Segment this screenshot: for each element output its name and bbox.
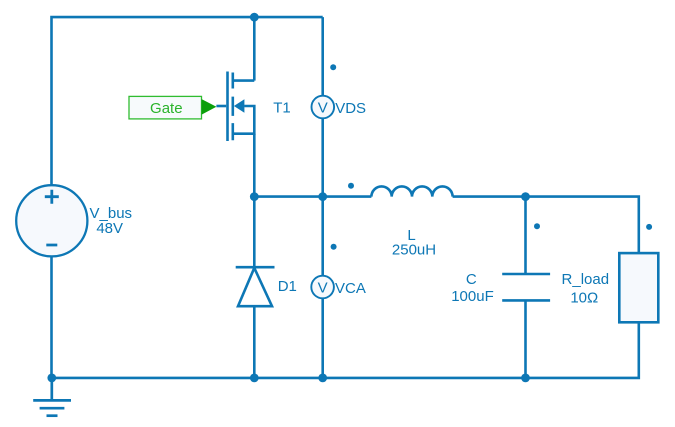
probe dot VCA (331, 244, 337, 250)
wire drain (253, 17, 256, 81)
junction mid probe (318, 192, 327, 201)
svg-text:V: V (318, 279, 328, 296)
diode D1 (236, 197, 275, 378)
wire mid rail (254, 197, 639, 254)
probe dot resistor (646, 224, 652, 230)
junction bottom capacitor (521, 374, 530, 383)
probe dot inductor (348, 183, 354, 189)
resistor R_load (619, 253, 658, 322)
junction bottom probe (318, 374, 327, 383)
probe VCA (311, 276, 334, 299)
transistor T1 body arrow (234, 99, 245, 113)
svg-text:100uF: 100uF (451, 288, 494, 305)
junction mid capacitor (521, 192, 530, 201)
ground (33, 378, 71, 416)
svg-text:V: V (318, 99, 328, 116)
wire left column below source (50, 256, 53, 378)
gate tag box (129, 96, 202, 119)
wire bottom rail (52, 322, 639, 378)
svg-text:T1: T1 (273, 100, 291, 117)
svg-text:C: C (466, 271, 477, 288)
junction bottom ground (47, 374, 56, 383)
svg-text:Gate: Gate (150, 100, 183, 117)
capacitor C (502, 197, 550, 378)
svg-text:D1: D1 (278, 278, 297, 295)
inductor L (371, 186, 452, 196)
probe dot VDS (330, 64, 336, 70)
svg-text:250uH: 250uH (392, 241, 436, 258)
junction mid diode (250, 192, 259, 201)
probe VDS (312, 96, 335, 119)
gate tag arrow (202, 99, 217, 115)
svg-text:VDS: VDS (335, 100, 366, 117)
wire probe column VDS/VCA (321, 17, 324, 378)
junction bottom diode (250, 374, 259, 383)
svg-text:VCA: VCA (335, 280, 366, 297)
svg-text:R_load: R_load (562, 271, 610, 288)
svg-text:48V: 48V (96, 220, 123, 237)
svg-text:10Ω: 10Ω (570, 290, 598, 307)
wire top rail (52, 17, 323, 186)
transistor T1 (MOSFET) (216, 72, 254, 142)
wire source (253, 134, 256, 197)
voltage source V_bus (16, 185, 87, 256)
probe dot capacitor (534, 223, 540, 229)
junction top drain (250, 13, 259, 22)
